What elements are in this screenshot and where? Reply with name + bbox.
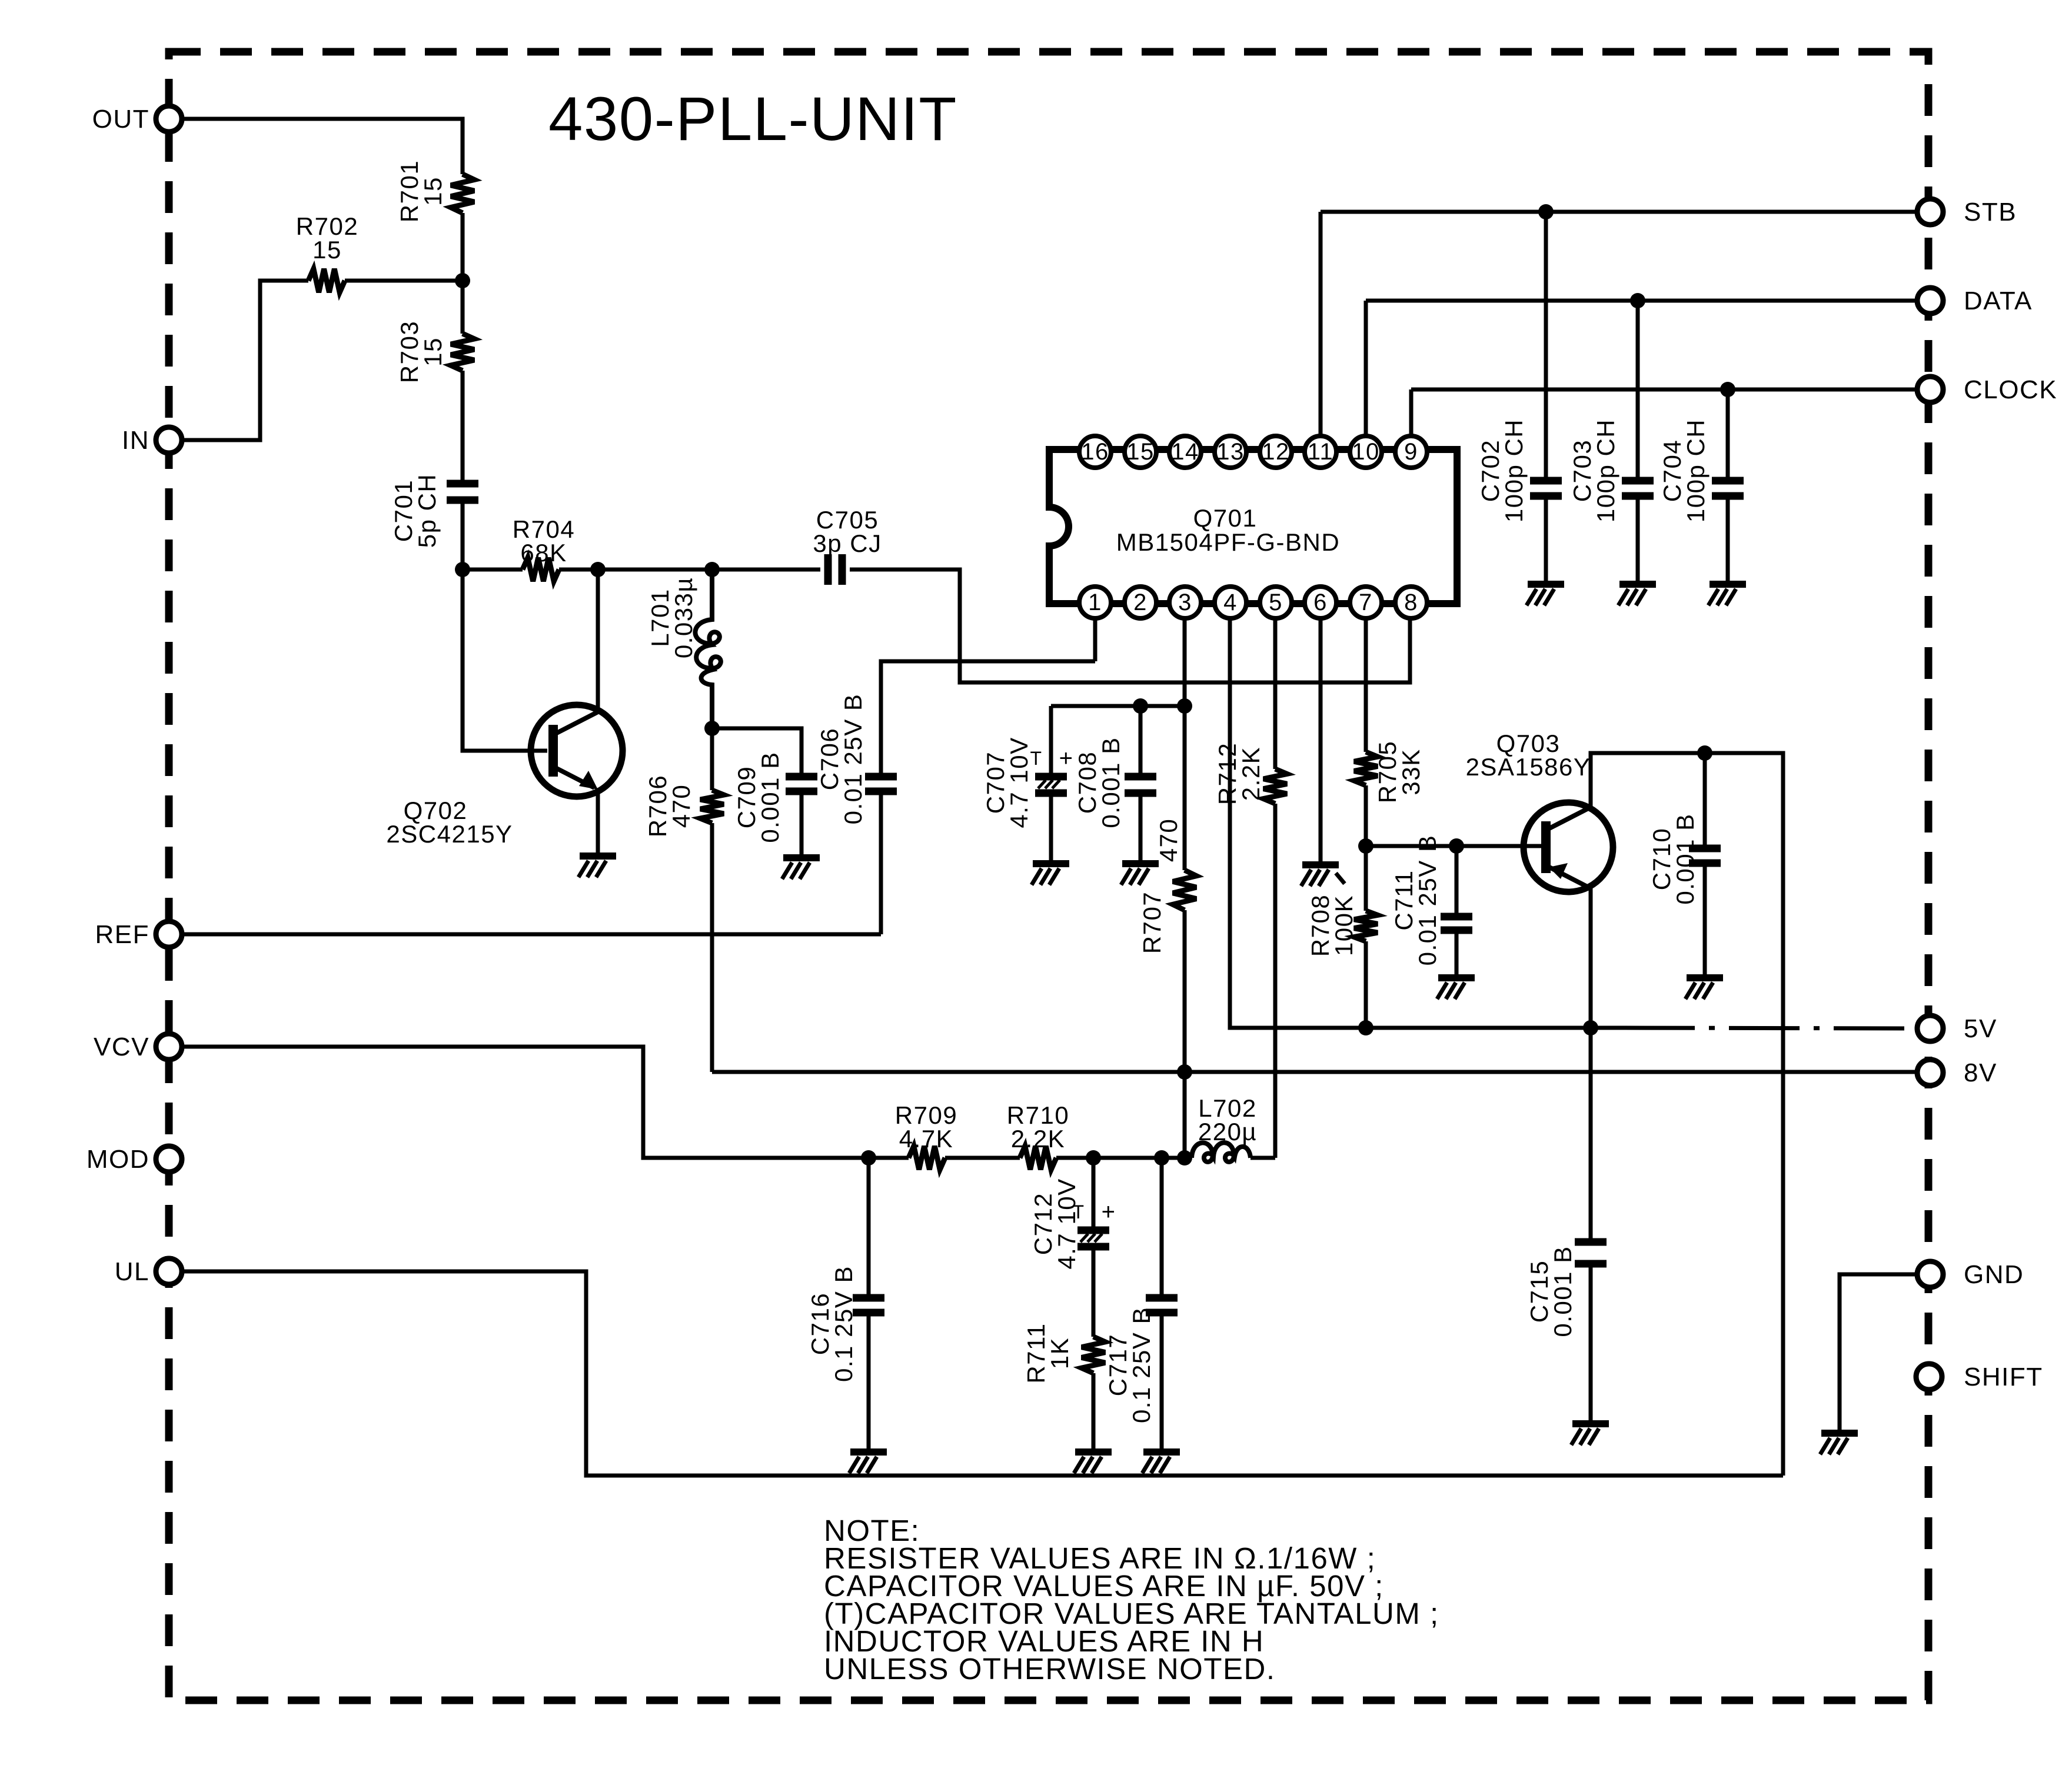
wire C711 to ground xyxy=(1455,930,1459,976)
wire C707 to ground xyxy=(1049,793,1053,862)
wire C717 drop xyxy=(1160,1158,1164,1298)
node C717 top xyxy=(1154,1150,1169,1165)
resistor R704 xyxy=(513,515,575,581)
ground C716 xyxy=(849,1452,887,1473)
wire Q703 top lead to C710 line xyxy=(1591,753,1705,807)
ground C708 xyxy=(1121,864,1159,885)
wire R705 to base node xyxy=(1364,785,1368,846)
wire base line xyxy=(1366,844,1541,848)
capacitor C707 (tantalum) xyxy=(982,737,1073,828)
resistor R710 xyxy=(1007,1101,1069,1170)
node R707/8V xyxy=(1177,1064,1192,1080)
wire node to R703 xyxy=(461,281,465,334)
capacitor C709 xyxy=(733,751,817,842)
capacitor C711 xyxy=(1390,835,1472,966)
wire pin3 to R707 xyxy=(1183,706,1187,870)
wire pin5 to R712 xyxy=(1273,620,1278,769)
ground C704 xyxy=(1708,584,1746,605)
wire OUT to R701 xyxy=(182,119,463,174)
IC U-Q701 body outline xyxy=(1049,449,1457,604)
node L701 bottom xyxy=(704,721,720,736)
wire R706 to 8V corner xyxy=(710,823,714,1072)
wire GND to ground xyxy=(1840,1274,1917,1431)
capacitor C706 xyxy=(816,694,897,825)
wire STB line xyxy=(1321,210,1917,214)
resistor R708 xyxy=(1306,894,1378,957)
svg-text:R706470: R706470 xyxy=(644,775,695,837)
capacitor C704 xyxy=(1658,419,1744,522)
wire VCV line xyxy=(182,1047,869,1158)
svg-text:R70533K: R70533K xyxy=(1373,741,1425,803)
svg-text:3p CJ: 3p CJ xyxy=(813,529,882,557)
transistor Q703 xyxy=(1466,730,1613,892)
wire pin10 to DATA line xyxy=(1364,301,1368,436)
svg-text:11: 11 xyxy=(1308,439,1334,465)
wire R708 to 5V xyxy=(1364,941,1368,1028)
svg-text:8: 8 xyxy=(1404,590,1418,615)
svg-text:UNLESS OTHERWISE NOTED.: UNLESS OTHERWISE NOTED. xyxy=(824,1652,1276,1686)
svg-text:2SA1586Y: 2SA1586Y xyxy=(1466,753,1591,781)
wire R707 to 8V node xyxy=(1183,910,1187,1072)
IC Q701 pin 11 xyxy=(1305,436,1336,468)
svg-text:L7010.033µ: L7010.033µ xyxy=(646,577,697,658)
svg-text:8V: 8V xyxy=(1964,1058,1997,1087)
terminal CLOCK xyxy=(1917,375,2057,404)
wire Q702 collector xyxy=(596,570,600,712)
svg-text:CLOCK: CLOCK xyxy=(1964,375,2057,404)
IC Q701 pin 14 xyxy=(1169,436,1201,468)
wire DATA line xyxy=(1366,299,1917,303)
resistor R709 xyxy=(895,1101,957,1170)
wire R701 to node xyxy=(461,213,465,281)
inductor L701 xyxy=(646,570,721,728)
wire R712 to L702 xyxy=(1273,804,1278,1158)
svg-text:C7015p CH: C7015p CH xyxy=(390,474,441,548)
svg-text:220µ: 220µ xyxy=(1198,1118,1257,1145)
IC Q701 pin 2 xyxy=(1125,587,1156,618)
svg-text:2.2K: 2.2K xyxy=(1011,1125,1065,1153)
wire 5V line mid xyxy=(1366,1026,1591,1030)
node C712 top xyxy=(1086,1150,1101,1165)
svg-text:UL: UL xyxy=(115,1257,149,1286)
node C701/R704 xyxy=(455,562,470,577)
wire C705 to pin8 route xyxy=(850,570,1410,682)
wire base node to R708 xyxy=(1364,846,1368,911)
ground C717 xyxy=(1142,1452,1180,1473)
svg-text:R708100K: R708100K xyxy=(1306,894,1358,957)
wire MOD rail a xyxy=(869,1156,909,1160)
border frame (dashed) xyxy=(169,52,1928,1700)
svg-text:15: 15 xyxy=(312,236,342,264)
wire pin4 to 5V line xyxy=(1230,620,1366,1028)
wire C716 to ground xyxy=(867,1313,871,1450)
svg-text:10: 10 xyxy=(1352,439,1380,465)
wire Q703 lower lead to 5V node xyxy=(1589,888,1593,1028)
capacitor C717 xyxy=(1104,1298,1178,1423)
terminal VCV xyxy=(94,1033,182,1061)
svg-text:REF: REF xyxy=(95,920,150,949)
capacitor C702 xyxy=(1476,419,1562,522)
svg-text:STB: STB xyxy=(1964,198,2017,227)
wire CLOCK line xyxy=(1411,388,1917,392)
wire C702 from node xyxy=(1544,212,1548,481)
svg-text:470: 470 xyxy=(1155,818,1182,862)
terminal IN xyxy=(122,426,182,455)
svg-text:14: 14 xyxy=(1171,439,1199,465)
IC Q701 pin 1 xyxy=(1079,587,1111,618)
node C716 top xyxy=(861,1150,876,1165)
svg-text:9: 9 xyxy=(1404,439,1418,465)
svg-text:68K: 68K xyxy=(520,539,567,567)
svg-text:430-PLL-UNIT: 430-PLL-UNIT xyxy=(548,85,957,154)
title 430-PLL-UNIT xyxy=(548,85,957,154)
wire C701 node to Q702 base xyxy=(463,570,547,751)
wire UL path xyxy=(182,1271,1783,1476)
IC Q701 pin 7 xyxy=(1350,587,1382,618)
IC Q701 pin 9 xyxy=(1395,436,1427,468)
wire MOD rail e xyxy=(1162,1156,1192,1160)
wire IN to R702 xyxy=(182,281,308,440)
wire C717 to ground xyxy=(1160,1313,1164,1450)
svg-text:16: 16 xyxy=(1081,439,1109,465)
node Q702 collector xyxy=(590,562,606,577)
wire C710 line to corner xyxy=(1705,753,1783,1476)
capacitor C701 xyxy=(390,474,478,548)
wire 8V line xyxy=(712,1070,1917,1074)
ground pin6 xyxy=(1301,865,1345,886)
IC Q701 pin 4 xyxy=(1215,587,1246,618)
wire C707/C708 line xyxy=(1051,704,1185,708)
wire Q702 emitter to ground xyxy=(596,790,600,854)
resistor R705 xyxy=(1354,741,1425,803)
ground C710 xyxy=(1685,978,1723,999)
ground R711 xyxy=(1074,1452,1112,1473)
wire C703 to ground xyxy=(1636,496,1640,582)
IC Q701 pin 6 xyxy=(1305,587,1336,618)
node DATA/C703 xyxy=(1630,293,1645,308)
wire R704 to node xyxy=(559,568,598,572)
svg-text:6: 6 xyxy=(1313,590,1328,615)
wire MOD rail d xyxy=(1093,1156,1162,1160)
svg-text:3: 3 xyxy=(1178,590,1192,615)
wire pin9 to CLOCK line xyxy=(1409,389,1414,436)
IC Q701 pin 12 xyxy=(1260,436,1292,468)
capacitor C703 xyxy=(1568,419,1654,522)
resistor R707 xyxy=(1138,818,1196,954)
IC Q701 pin 10 xyxy=(1350,436,1382,468)
wire MOD rail c xyxy=(1056,1156,1093,1160)
node pin3/C708 line xyxy=(1177,698,1192,714)
node Q703 emitter/5V xyxy=(1583,1020,1598,1035)
node C708 top xyxy=(1133,698,1148,714)
svg-text:1: 1 xyxy=(1088,590,1102,615)
terminal OUT xyxy=(92,105,182,134)
svg-text:15: 15 xyxy=(1126,439,1155,465)
terminal MOD xyxy=(87,1145,182,1174)
ground C715 xyxy=(1571,1424,1609,1445)
ground C707 xyxy=(1032,864,1069,885)
svg-text:5V: 5V xyxy=(1964,1014,1997,1043)
wire C708 to ground xyxy=(1139,793,1143,862)
wire node to C709 xyxy=(712,728,801,777)
node STB/C702 xyxy=(1538,204,1554,219)
IC Q701 pin 15 xyxy=(1125,436,1156,468)
wire pin1 to C706 xyxy=(1093,620,1097,661)
wire C715 to ground xyxy=(1589,1264,1593,1422)
svg-text:IN: IN xyxy=(122,426,149,455)
node L701 top xyxy=(704,562,720,577)
capacitor C712 (tantalum) xyxy=(1029,1178,1116,1269)
node C710 top xyxy=(1697,745,1712,761)
IC Q701 pin 16 xyxy=(1079,436,1111,468)
svg-text:7: 7 xyxy=(1359,590,1373,615)
wire C702 to ground xyxy=(1544,496,1548,582)
terminal DATA xyxy=(1917,287,2033,315)
svg-text:5: 5 xyxy=(1269,590,1283,615)
resistor R702 xyxy=(296,212,358,292)
wire node to L701 node xyxy=(598,568,712,572)
wire C710 drop xyxy=(1703,753,1707,848)
terminal STB xyxy=(1917,198,2017,227)
wire pin6 down xyxy=(1319,620,1323,863)
svg-text:12: 12 xyxy=(1262,439,1290,465)
wire node to C705 xyxy=(712,568,820,572)
wire 5V line dashed xyxy=(1591,1028,1917,1028)
svg-text:Q701: Q701 xyxy=(1193,504,1258,532)
wire REF line xyxy=(182,933,881,937)
wire R702 to node xyxy=(345,279,463,283)
capacitor C710 xyxy=(1648,813,1721,904)
wire C712 drop xyxy=(1092,1158,1096,1230)
svg-text:GND: GND xyxy=(1964,1260,2024,1289)
wire node to R704 xyxy=(463,568,523,572)
terminal 5V xyxy=(1917,1014,1997,1043)
ground GND terminal xyxy=(1820,1433,1858,1454)
terminal REF xyxy=(95,920,182,949)
wire L702 to pin5 line xyxy=(1250,1156,1275,1160)
ground Q702 emitter xyxy=(578,856,616,877)
svg-text:VCV: VCV xyxy=(94,1033,149,1061)
svg-text:OUT: OUT xyxy=(92,105,149,134)
terminal SHIFT xyxy=(1916,1363,2043,1391)
wire pin11 to STB line xyxy=(1319,212,1323,436)
resistor R712 xyxy=(1213,742,1287,805)
svg-text:DATA: DATA xyxy=(1964,287,2033,315)
svg-text:13: 13 xyxy=(1216,439,1245,465)
wire C706 top route xyxy=(881,661,1095,777)
svg-text:MOD: MOD xyxy=(87,1145,149,1174)
wire C704 to ground xyxy=(1726,496,1730,582)
svg-text:+: + xyxy=(1102,1199,1116,1225)
terminal UL xyxy=(115,1257,182,1286)
wire C709 to ground xyxy=(800,791,804,856)
transistor Q702 xyxy=(386,705,623,848)
wire node to R706 xyxy=(710,728,714,790)
wire C704 from node xyxy=(1726,389,1730,481)
inductor L702 xyxy=(1192,1094,1257,1162)
resistor R711 xyxy=(1022,1323,1105,1383)
node R701/R702/R703 xyxy=(455,273,470,288)
IC Q701 pin 8 xyxy=(1395,587,1427,618)
svg-text:+: + xyxy=(1059,745,1074,771)
svg-text:SHIFT: SHIFT xyxy=(1964,1363,2043,1391)
capacitor C716 xyxy=(806,1266,884,1382)
wire C716 drop xyxy=(867,1158,871,1298)
svg-text:R707: R707 xyxy=(1138,891,1166,954)
svg-text:4.7K: 4.7K xyxy=(899,1125,953,1153)
resistor R703 xyxy=(395,321,474,383)
wire R711 to ground xyxy=(1092,1373,1096,1450)
svg-text:MB1504PF-G-BND: MB1504PF-G-BND xyxy=(1116,528,1340,556)
wire 5V node to C715 xyxy=(1589,1028,1593,1242)
wire C708 drop xyxy=(1139,706,1143,777)
svg-text:R7122.2K: R7122.2K xyxy=(1213,742,1265,805)
terminal GND xyxy=(1917,1260,2024,1289)
capacitor C705 xyxy=(813,506,882,585)
wire pin3 down xyxy=(1183,620,1187,706)
svg-text:2SC4215Y: 2SC4215Y xyxy=(386,820,513,848)
capacitor C715 xyxy=(1525,1242,1607,1337)
node CLOCK/C704 xyxy=(1720,382,1735,397)
ground C703 xyxy=(1618,584,1656,605)
wire MOD rail b xyxy=(945,1156,1020,1160)
resistor R706 xyxy=(644,775,724,837)
ground C711 xyxy=(1437,978,1475,999)
node R705/R708/base xyxy=(1358,838,1373,854)
wire pin7 to R705 xyxy=(1364,620,1368,752)
IC Q701 pin 5 xyxy=(1260,587,1292,618)
wire C707 drop xyxy=(1049,706,1053,777)
IC Q701 pin 3 xyxy=(1169,587,1201,618)
wire C703 from node xyxy=(1636,301,1640,481)
note text block xyxy=(824,1514,1439,1686)
resistor R701 xyxy=(395,160,474,222)
wire C710 to ground xyxy=(1703,863,1707,976)
IC Q701 pin 13 xyxy=(1215,436,1246,468)
svg-text:4: 4 xyxy=(1223,590,1238,615)
node C711 top xyxy=(1449,838,1464,854)
wire C712 to R711 xyxy=(1092,1247,1096,1337)
wire C711 from node xyxy=(1455,846,1459,917)
node R707/MOD xyxy=(1177,1150,1192,1165)
node R708/5V xyxy=(1358,1020,1373,1035)
wire R707 to MOD line xyxy=(1183,1072,1187,1158)
capacitor C708 xyxy=(1073,737,1156,828)
terminal 8V xyxy=(1917,1058,1997,1087)
wire C701 to node xyxy=(461,500,465,570)
ground C709 xyxy=(782,858,820,879)
ground C702 xyxy=(1526,584,1564,605)
svg-text:2: 2 xyxy=(1133,590,1148,615)
wire R703 to C701 xyxy=(461,371,465,484)
wire C706 to REF xyxy=(879,791,883,934)
